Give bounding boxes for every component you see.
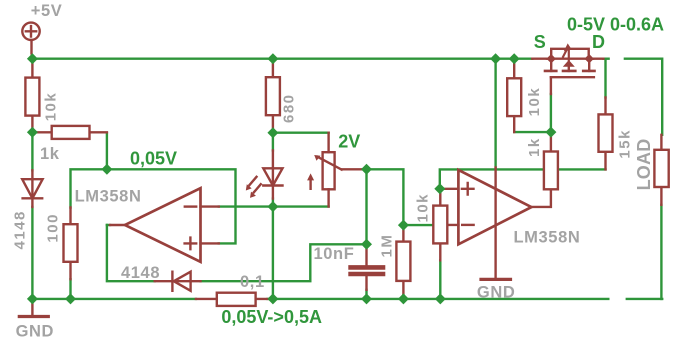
MOSFET gate lead [550, 77, 552, 94]
wire 680 bottom to LED top [272, 133, 274, 151]
LED triangle [263, 168, 282, 185]
MOSFET drain dot [585, 54, 594, 63]
resistor 1k body [52, 126, 90, 139]
resistor 100 body [64, 224, 78, 262]
wire 0,05V node to 100 resistor [71, 169, 107, 207]
diode D1 4148 pins [31, 170, 33, 207]
svg-text:LOAD: LOAD [634, 139, 654, 191]
wire drain down to 15k [604, 59, 606, 98]
resistor 1k-right pins [550, 132, 552, 151]
node V+ U1B rail [490, 53, 501, 64]
node wiper [361, 164, 372, 175]
svg-text:0-5V 0-0.6A: 0-5V 0-0.6A [567, 15, 664, 35]
node cap bottom [361, 293, 372, 304]
wire 10k-right bottom node to gate node [514, 131, 551, 133]
potentiometer adjust arrow shaft [309, 179, 311, 189]
MOSFET source dot [547, 54, 556, 63]
potentiometer adjust arrow head [307, 173, 314, 180]
node 680 bottom [267, 127, 278, 138]
potentiometer body [323, 152, 335, 189]
resistor 100 pins [69, 208, 71, 280]
potentiometer pins [327, 133, 329, 207]
node 1M top [398, 220, 409, 231]
potentiometer diagonal [317, 157, 341, 170]
wire load bottom to rail [660, 205, 662, 299]
wire -input U1B [403, 224, 441, 226]
resistor R1 10k pins [31, 59, 33, 133]
node +5V rail left [27, 53, 38, 64]
op-amp U1A plus glyph [185, 238, 197, 250]
resistor 15k pins [604, 97, 606, 169]
node GND tap [27, 293, 38, 304]
op-amp U1B power pins [494, 168, 496, 280]
resistor 680 pins [272, 59, 274, 133]
LED arrow 1 [250, 177, 257, 185]
svg-text:+5V: +5V [31, 2, 63, 20]
svg-text:S: S [534, 32, 546, 52]
wire wiper node down to cap node [365, 169, 367, 244]
wire gate to gate node [550, 94, 552, 132]
resistor 1k-right body [544, 152, 558, 190]
resistor 10k-mid body [433, 206, 447, 244]
svg-text:LM358N: LM358N [514, 229, 581, 247]
svg-text:15k: 15k [616, 129, 633, 159]
node 1k tap [27, 127, 38, 138]
resistor 10k-mid pins [439, 189, 441, 260]
MOSFET S-D line [547, 58, 593, 60]
capacitor 10nF plates [351, 265, 383, 270]
wire left column J2 to D1 [31, 132, 33, 170]
node 1M bottom [398, 293, 409, 304]
resistor 10k-right body [507, 78, 521, 116]
resistor 680 body [266, 77, 280, 115]
MOSFET body diode cathode link [568, 49, 570, 60]
resistor 1k pins [32, 131, 107, 133]
LED arrow 2 [254, 184, 261, 192]
resistor 1M body [396, 242, 410, 281]
svg-text:1M: 1M [379, 234, 396, 258]
op-amp U1A minus glyph [185, 205, 196, 207]
MOSFET substrate arrow head [564, 43, 572, 51]
svg-text:GND: GND [16, 322, 54, 340]
svg-text:0,1: 0,1 [240, 273, 265, 291]
op-amp U1B +input pin [441, 188, 458, 190]
diode D2 4148 triangle [174, 272, 191, 291]
svg-text:0,05V: 0,05V [130, 148, 177, 168]
ground GND1 [31, 299, 33, 317]
ground GND2 bar [481, 278, 511, 281]
resistor 10k-right pins [513, 59, 515, 132]
svg-text:10nF: 10nF [314, 245, 355, 263]
LED arrow 1 head [246, 184, 252, 190]
node 10k-mid bottom [435, 293, 446, 304]
svg-text:4148: 4148 [121, 264, 160, 282]
svg-text:D: D [592, 32, 605, 52]
potentiometer diagonal arrow head [314, 155, 320, 161]
wire V+ of U1B to rail [494, 59, 496, 168]
svg-text:1k: 1k [526, 137, 543, 157]
op-amp U1B plus glyph [462, 183, 474, 195]
resistor 0,1 body [217, 293, 256, 306]
node gate [545, 127, 556, 138]
svg-text:2V: 2V [338, 132, 360, 152]
node +input U1B [434, 183, 445, 194]
svg-text:10k: 10k [415, 193, 432, 223]
op-amp U1B output / 1k connection [531, 189, 551, 207]
wire 1k to 0,05V node [106, 133, 108, 169]
wire bottom GND rail middle [268, 298, 609, 300]
svg-text:680: 680 [280, 93, 297, 123]
svg-text:LM358N: LM358N [75, 188, 142, 206]
LED arrow 2 head [250, 192, 256, 198]
LED cathode bar [263, 184, 282, 186]
svg-text:100: 100 [44, 213, 61, 243]
wire cap bottom to GND rail [365, 290, 367, 299]
capacitor 10nF pins [365, 244, 367, 289]
resistor 15k body [599, 114, 613, 151]
resistor 0,1 pins [196, 298, 268, 300]
resistor LOAD body [654, 150, 668, 187]
MOSFET top body path [551, 49, 589, 59]
MOSFET channel stubs [545, 70, 595, 73]
node LED bottom [267, 201, 278, 212]
wire U1A output down [107, 225, 155, 281]
node shunt right [267, 293, 278, 304]
node cap top [361, 239, 372, 250]
diode D1 4148 cathode bar [23, 197, 43, 199]
wire 100 resistor to GND rail [69, 279, 71, 299]
wire pot wiper to node [363, 169, 404, 225]
diode D1 4148 triangle [22, 179, 42, 198]
node 100 bottom [65, 293, 76, 304]
svg-text:4148: 4148 [12, 210, 29, 249]
MOSFET gate bar [551, 76, 594, 78]
svg-text:10k: 10k [43, 92, 60, 122]
op-amp U1B minus glyph [462, 224, 473, 226]
MOSFET substrate arrow tail line [563, 49, 567, 57]
wire load branch top [625, 59, 662, 135]
wire LED net down to GND rail [272, 207, 274, 299]
node 10k-right top [509, 53, 520, 64]
wire -input U1A / LED net [219, 205, 329, 207]
op-amp U1A triangle [125, 188, 201, 262]
supply +5V symbol [22, 23, 39, 40]
wire 10k-mid bottom to rail [439, 260, 441, 299]
MOSFET drain lead [593, 58, 603, 60]
wire 1M bottom to rail [402, 296, 404, 299]
node 680 top [267, 53, 278, 64]
diode D2 4148 pins [155, 280, 201, 282]
op-amp U1B triangle [458, 170, 531, 244]
wire top +5V rail [32, 58, 532, 60]
wire LED bottom to -net [272, 199, 274, 207]
wire -input U1B pin [440, 224, 458, 226]
potentiometer wiper lead [342, 168, 363, 170]
svg-text:10k: 10k [526, 87, 543, 117]
wire bottom GND rail left [32, 298, 196, 300]
wire U1A output stub [107, 224, 110, 226]
wire D2 anode to cap node [201, 244, 367, 281]
svg-text:0,05V->0,5A: 0,05V->0,5A [221, 307, 322, 327]
resistor LOAD pins [660, 135, 662, 205]
wire bottom GND rail right segment [627, 298, 662, 300]
svg-text:1k: 1k [40, 145, 60, 163]
op-amp U1A pins [110, 207, 219, 244]
svg-text:GND: GND [477, 283, 515, 301]
resistor 1M pins [402, 225, 404, 297]
LED pins [272, 150, 274, 198]
MOSFET source lead [532, 58, 547, 60]
wire 0,05V net to +input of U1A [107, 169, 236, 243]
wire 680 bottom to pot top [273, 131, 329, 133]
wire left column D1 to GND rail [31, 207, 33, 299]
resistor R1 10k body [25, 78, 39, 116]
wire drain stub [603, 58, 608, 60]
diode D2 4148 cathode bar [171, 272, 173, 291]
MOSFET body diode triangle [563, 60, 575, 67]
MOSFET legs [551, 59, 589, 71]
node 0,05V [101, 164, 112, 175]
wire +input U1B up and right to 15k (sense) [440, 169, 606, 188]
